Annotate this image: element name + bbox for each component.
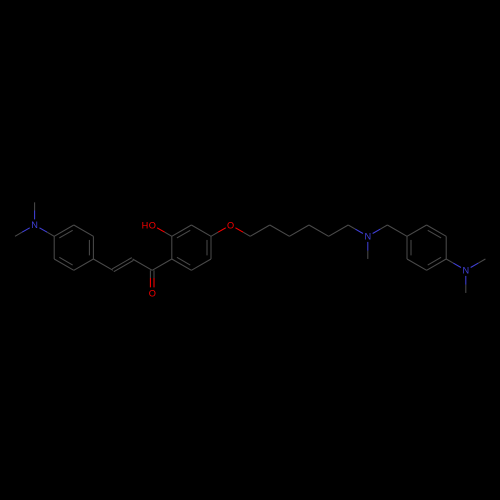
ring2 edge E2-F2	[191, 259, 211, 270]
ring3 double bond inner D3-E3	[428, 257, 441, 265]
svg-text:N: N	[31, 220, 38, 230]
ring2 edge C2-D2	[191, 225, 211, 236]
bond N3-CH3 (upper right methyl)	[471, 263, 479, 267]
chain bond C6-N2	[355, 229, 363, 233]
ring2 edge F2-A2	[172, 259, 192, 270]
bond N1-ring1	[39, 228, 47, 232]
ring2 edge D2-E2	[210, 236, 212, 259]
ring3 edge C3-D3	[445, 236, 447, 259]
ring1 edge F1-A1	[53, 236, 55, 259]
ring1 edge B1-C1	[74, 225, 94, 236]
bond CH2-ring3	[387, 225, 407, 236]
ring1 edge C1-D1	[92, 236, 94, 259]
bond ring2-OH	[157, 228, 165, 232]
ring3 edge D3-E3	[427, 259, 447, 270]
ring3 edge F3-A3	[406, 236, 408, 259]
bond CH-C(=O)	[133, 259, 153, 270]
svg-text:N: N	[364, 232, 371, 242]
bond N2-CH3 (down methyl)	[367, 242, 369, 251]
ring2 double bond inner F2-A2	[177, 257, 190, 265]
ring1 edge A1-B1	[54, 225, 74, 236]
bond ring1-CH	[93, 259, 113, 270]
bond ring2-O ether	[218, 228, 226, 232]
bond O-CH2 chain start	[235, 228, 243, 232]
bond N2-CH2 benzyl	[373, 229, 381, 233]
ring3 double bond inner F3-A3	[410, 240, 412, 255]
ring3 edge A3-B3	[407, 225, 427, 236]
ring1 double bond inner C1-D1	[88, 240, 90, 255]
ring2 edge A2-B2	[171, 236, 173, 259]
ring1 edge D1-E1	[74, 259, 94, 270]
ring3 edge E3-F3	[407, 259, 427, 270]
svg-text:O: O	[149, 221, 156, 231]
svg-text:O: O	[149, 289, 156, 299]
chain bond C1-C2	[250, 225, 270, 236]
bond C(=O)-ring2	[152, 259, 172, 270]
ring1 double bond inner E1-F1	[59, 257, 72, 265]
ring1 double bond inner A1-B1	[59, 230, 72, 238]
vinyl C=C double bond	[114, 260, 134, 271]
ring2 edge B2-C2	[172, 225, 192, 236]
carbonyl C=O double bond	[149, 278, 151, 287]
bond ring3-N3	[453, 263, 461, 267]
chain bond C4-C5	[309, 225, 329, 236]
ring1 edge E1-F1	[54, 259, 74, 270]
ring3 double bond inner B3-C3	[428, 230, 441, 238]
bond N3-CH3 (down methyl)	[465, 276, 467, 285]
chain bond C3-C4	[289, 225, 309, 236]
ring2 double bond inner D2-E2	[206, 240, 208, 255]
bond N1-CH3 (left methyl)	[22, 228, 30, 232]
svg-text:H: H	[142, 221, 149, 231]
ring2 double bond inner B2-C2	[177, 230, 190, 238]
svg-text:N: N	[462, 265, 469, 275]
chain bond C2-C3	[270, 225, 290, 236]
bond N1-CH3 (up methyl)	[34, 211, 36, 220]
ring3 edge B3-C3	[427, 225, 447, 236]
chain bond C5-C6	[329, 225, 349, 236]
svg-text:O: O	[227, 221, 234, 231]
